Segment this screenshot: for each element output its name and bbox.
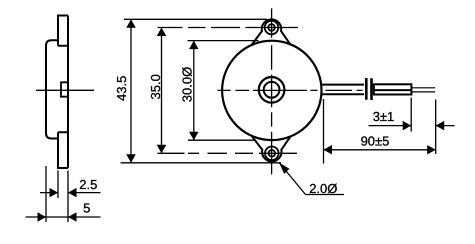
svg-text:90±5: 90±5 xyxy=(361,134,390,149)
dimension 2.5 line right part xyxy=(68,192,101,194)
svg-text:30.0Ø: 30.0Ø xyxy=(179,67,194,102)
wire segment 2 outline xyxy=(374,84,412,94)
svg-text:5: 5 xyxy=(83,201,90,216)
extension line circle top (30.0) xyxy=(188,40,259,42)
top ear hole outer ring xyxy=(265,21,279,35)
dimension 35.0 line xyxy=(161,28,163,154)
dimension 90+-5 line xyxy=(324,149,436,151)
dimension 30.0 arrow top xyxy=(189,41,199,50)
top ear hole inner ring xyxy=(268,24,275,31)
dimension 2.5 arrow right xyxy=(68,188,77,198)
wire segment 2 middle line xyxy=(374,89,412,91)
svg-text:2.0Ø: 2.0Ø xyxy=(309,181,337,196)
hub outer ring xyxy=(259,77,285,103)
dimension 5 line right part xyxy=(68,216,101,218)
front view main circle xyxy=(222,41,321,140)
hub inner ring xyxy=(264,82,280,98)
dimension 3+-1 arrow left xyxy=(403,121,412,131)
bare wire lead bottom xyxy=(411,91,435,93)
dimension 43.5 arrow top xyxy=(126,19,136,28)
wire crimp bar 1 xyxy=(365,78,368,100)
bottom hole centerline xyxy=(158,152,298,154)
svg-text:43.5: 43.5 xyxy=(114,76,129,101)
dimension 2.5 arrow left xyxy=(50,188,59,198)
dimension 2.5 line left part xyxy=(40,192,58,194)
bottom ear hole outer ring xyxy=(265,147,279,161)
leader 2.0 dia diagonal xyxy=(279,163,306,195)
extension line tab left xyxy=(57,171,59,199)
side view top mounting tab xyxy=(58,16,68,46)
extension line sleeve end (3) xyxy=(410,98,412,132)
top hole centerline xyxy=(158,27,299,29)
horizontal centerline xyxy=(218,89,363,91)
leader 2.0 dia arrowhead xyxy=(279,163,289,175)
extension line body right xyxy=(67,171,69,223)
front view bottom ear outline xyxy=(252,136,291,161)
dimension 5 arrow left xyxy=(38,212,47,222)
dimension 3+-1 arrow right xyxy=(436,121,445,131)
bottom ear hole inner ring xyxy=(269,150,276,157)
dimension 43.5 arrow bottom xyxy=(126,154,136,163)
extension line body left xyxy=(45,166,47,222)
dimension 3+-1 line left part xyxy=(369,125,412,127)
vertical centerline xyxy=(271,8,273,174)
extension line circle bottom (30.0) xyxy=(188,139,254,141)
wire segment 1 top line xyxy=(322,84,365,86)
leader 2.0 dia underline xyxy=(306,194,345,196)
side view right edge xyxy=(67,16,69,169)
dimension 90+-5 arrow right xyxy=(427,145,436,155)
dimension 3+-1 line right part xyxy=(436,125,455,127)
bare wire lead top xyxy=(411,87,435,89)
dimension 35.0 arrow bottom xyxy=(157,145,167,154)
extension line wire end xyxy=(435,100,437,155)
extension line top (43.5) xyxy=(124,18,267,20)
dimension 35.0 arrow top xyxy=(157,28,167,37)
extension line bottom (43.5) xyxy=(121,162,281,164)
dimension 30.0 line xyxy=(193,41,195,141)
dimension 43.5 line xyxy=(130,19,132,163)
dimension 5 arrow right xyxy=(68,212,77,222)
dimension 90+-5 arrow left xyxy=(324,145,333,155)
svg-text:2.5: 2.5 xyxy=(79,177,97,192)
front view top ear outline xyxy=(252,19,291,44)
extension line wire start (90) xyxy=(323,99,325,164)
wire crimp bar 2 xyxy=(370,78,373,100)
svg-text:35.0: 35.0 xyxy=(148,74,163,99)
side view bottom mounting tab xyxy=(58,132,68,168)
side view body outline xyxy=(46,40,58,138)
side view hub notch xyxy=(61,82,68,96)
dimension 30.0 arrow bottom xyxy=(189,132,199,141)
side view horizontal centerline xyxy=(36,89,94,91)
dimension 5 line left part xyxy=(26,216,69,218)
wire segment 1 bottom line xyxy=(322,93,365,95)
svg-text:3±1: 3±1 xyxy=(373,109,395,124)
